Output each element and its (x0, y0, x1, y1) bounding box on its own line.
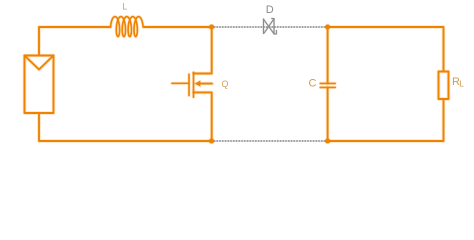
svg-text:C: C (309, 78, 317, 90)
svg-text:D: D (266, 4, 274, 16)
svg-text:L: L (122, 2, 127, 12)
svg-text:Q: Q (222, 79, 229, 89)
svg-text:L: L (459, 78, 464, 88)
